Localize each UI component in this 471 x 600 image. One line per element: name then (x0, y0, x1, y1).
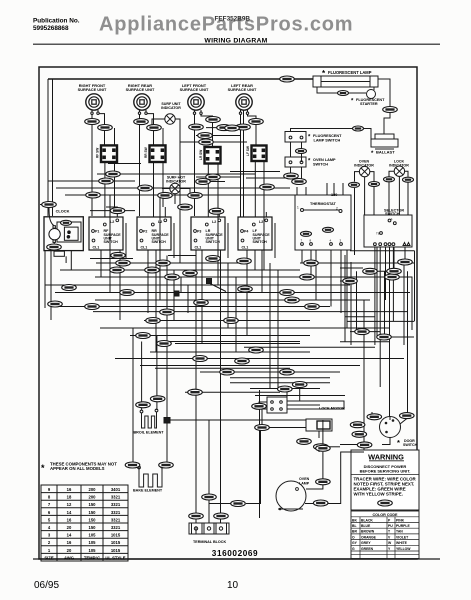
svg-text:1015: 1015 (111, 533, 121, 538)
svg-text:1015: 1015 (111, 540, 121, 545)
svg-text:3321: 3321 (111, 495, 121, 500)
svg-text:*: * (397, 438, 400, 447)
svg-text:1: 1 (391, 217, 393, 221)
svg-text:6: 6 (48, 510, 51, 515)
svg-text:1: 1 (297, 206, 299, 210)
svg-text:PU: PU (388, 524, 393, 528)
svg-text:*: * (351, 99, 354, 105)
svg-text:BK: BK (352, 518, 357, 522)
svg-text:3321: 3321 (111, 510, 121, 515)
svg-text:SIZE: SIZE (44, 555, 54, 560)
svg-text:105: 105 (89, 533, 97, 538)
svg-text:SURFACE UNIT: SURFACE UNIT (228, 87, 257, 92)
svg-text:150: 150 (89, 502, 97, 507)
svg-text:200: 200 (89, 495, 97, 500)
svg-text:LOCK MOTOR: LOCK MOTOR (319, 407, 345, 411)
svg-text:CLOCK: CLOCK (56, 209, 70, 214)
svg-text:150: 150 (89, 525, 97, 530)
svg-text:12: 12 (67, 502, 72, 507)
svg-text:BR: BR (352, 530, 357, 534)
svg-text:105: 105 (89, 540, 97, 545)
svg-text:PURPLE: PURPLE (396, 524, 410, 528)
svg-text:Publication No.: Publication No. (33, 18, 80, 25)
svg-text:FLUORESCENT LAMP: FLUORESCENT LAMP (328, 70, 372, 75)
svg-text:16: 16 (67, 540, 72, 545)
svg-text:BROIL ELEMENT: BROIL ELEMENT (134, 431, 165, 435)
svg-text:SWITCH: SWITCH (152, 240, 167, 244)
svg-text:P3: P3 (197, 230, 201, 234)
svg-text:GREY: GREY (361, 541, 371, 545)
svg-text:VIOLET: VIOLET (396, 535, 409, 539)
svg-text:LR SW: LR SW (199, 150, 203, 160)
svg-text:3401: 3401 (111, 487, 121, 492)
svg-text:2: 2 (48, 540, 51, 545)
svg-text:COLOR CODE: COLOR CODE (373, 513, 399, 517)
svg-text:BL: BL (352, 524, 357, 528)
svg-text:YELLOW: YELLOW (396, 547, 411, 551)
svg-text:AWG: AWG (64, 555, 74, 560)
svg-text:5995268868: 5995268868 (33, 25, 69, 32)
svg-text:SURFACE UNIT: SURFACE UNIT (180, 87, 209, 92)
svg-text:LAMP SWITCH: LAMP SWITCH (314, 138, 341, 142)
svg-text:4: 4 (48, 525, 51, 530)
svg-text:8: 8 (48, 495, 51, 500)
svg-text:SWITCH: SWITCH (253, 240, 268, 244)
svg-text:BEFORE SERVICING UNIT.: BEFORE SERVICING UNIT. (360, 469, 411, 474)
svg-text:CL1: CL1 (195, 246, 202, 250)
svg-text:SWITCH: SWITCH (313, 162, 328, 166)
svg-text:SWITCH: SWITCH (104, 240, 119, 244)
svg-text:105: 105 (89, 548, 97, 553)
svg-text:CL1: CL1 (141, 246, 148, 250)
svg-text:1015: 1015 (111, 548, 121, 553)
svg-text:BROWN: BROWN (361, 530, 375, 534)
svg-text:L2: L2 (212, 220, 216, 224)
svg-text:16: 16 (67, 487, 72, 492)
svg-text:UL STYLE: UL STYLE (105, 555, 125, 560)
svg-text:06/95: 06/95 (34, 580, 59, 591)
svg-text:14: 14 (67, 533, 72, 538)
svg-text:*: * (308, 159, 311, 165)
svg-text:TERMINAL BLOCK: TERMINAL BLOCK (193, 540, 226, 544)
svg-text:3321: 3321 (111, 502, 121, 507)
svg-text:SWITCH: SWITCH (385, 212, 400, 216)
svg-text:PINK: PINK (396, 518, 405, 522)
svg-text:INDICATOR: INDICATOR (161, 106, 181, 110)
svg-text:GREEN: GREEN (361, 547, 374, 551)
svg-text:8: 8 (310, 239, 312, 243)
svg-text:1: 1 (48, 548, 51, 553)
svg-text:316002069: 316002069 (212, 549, 258, 558)
svg-text:2: 2 (336, 207, 338, 211)
svg-text:5: 5 (48, 517, 51, 522)
svg-text:3: 3 (340, 239, 342, 243)
svg-text:APPEAR ON ALL MODELS: APPEAR ON ALL MODELS (50, 466, 105, 471)
svg-text:O: O (352, 535, 355, 539)
svg-text:CL1: CL1 (242, 246, 249, 250)
svg-text:20: 20 (67, 525, 72, 530)
svg-text:WHITE: WHITE (396, 541, 408, 545)
svg-text:P4: P4 (244, 230, 248, 234)
svg-text:P2: P2 (143, 230, 147, 234)
svg-text:7: 7 (48, 502, 51, 507)
svg-text:TAN: TAN (396, 530, 403, 534)
svg-text:G: G (352, 547, 355, 551)
svg-text:FEF352B9B: FEF352B9B (215, 16, 251, 23)
svg-text:14: 14 (67, 510, 72, 515)
svg-text:GY: GY (352, 541, 358, 545)
svg-text:150: 150 (89, 510, 97, 515)
svg-text:LF SW: LF SW (246, 146, 250, 156)
svg-text:WIRING DIAGRAM: WIRING DIAGRAM (204, 38, 267, 45)
svg-text:SURFACE UNIT: SURFACE UNIT (78, 87, 107, 92)
svg-text:WARNING: WARNING (368, 453, 404, 462)
svg-text:200: 200 (89, 487, 97, 492)
svg-text:RF SW: RF SW (96, 148, 100, 158)
svg-text:BLACK: BLACK (361, 518, 373, 522)
svg-text:*: * (371, 151, 374, 157)
svg-text:18: 18 (67, 495, 72, 500)
svg-text:BLUE: BLUE (361, 524, 371, 528)
svg-text:150: 150 (89, 517, 97, 522)
svg-text:9: 9 (48, 487, 51, 492)
svg-text:ORANGE: ORANGE (361, 535, 377, 539)
svg-text:20: 20 (67, 548, 72, 553)
svg-text:3321: 3321 (111, 525, 121, 530)
svg-text:16: 16 (67, 517, 72, 522)
svg-text:INDICATOR: INDICATOR (166, 180, 186, 184)
svg-text:TEMP°C: TEMP°C (84, 555, 100, 560)
svg-text:TB: TB (376, 232, 380, 236)
svg-text:SWITCH: SWITCH (403, 443, 418, 447)
svg-text:STARTER: STARTER (360, 102, 378, 106)
svg-text:BALLAST: BALLAST (376, 150, 395, 155)
svg-text:L2: L2 (110, 220, 114, 224)
svg-text:THERMOSTAT: THERMOSTAT (310, 202, 336, 206)
svg-text:*: * (308, 135, 311, 141)
svg-text:RR SW: RR SW (144, 147, 148, 158)
svg-text:CL1: CL1 (93, 246, 100, 250)
svg-text:LAMP: LAMP (299, 481, 310, 485)
svg-text:3: 3 (48, 533, 51, 538)
svg-text:*: * (41, 463, 45, 473)
svg-text:P1: P1 (95, 230, 99, 234)
svg-text:3321: 3321 (111, 517, 121, 522)
svg-text:L2: L2 (259, 220, 263, 224)
svg-text:SURFACE UNIT: SURFACE UNIT (126, 87, 155, 92)
svg-text:*: * (322, 69, 326, 78)
svg-text:4: 4 (330, 239, 332, 243)
svg-text:10: 10 (227, 580, 239, 591)
svg-text:7: 7 (301, 239, 303, 243)
svg-text:BAKE ELEMENT: BAKE ELEMENT (133, 489, 163, 493)
svg-text:WITH YELLOW STRIPE.: WITH YELLOW STRIPE. (354, 492, 403, 497)
